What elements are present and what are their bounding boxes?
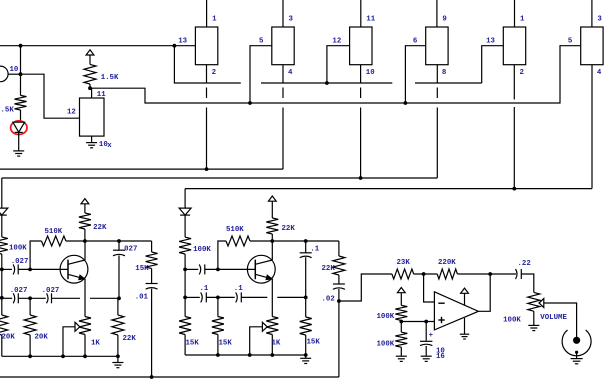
- svg-text:.027: .027: [42, 287, 60, 295]
- svg-text:.01: .01: [135, 293, 149, 301]
- wire: [151, 269, 153, 284]
- node junction: [116, 354, 120, 358]
- wire net IN to pin 13: [0, 45, 195, 47]
- capacitor .22: [516, 269, 522, 279]
- svg-text:15K: 15K: [307, 339, 321, 347]
- svg-text:15K: 15K: [135, 265, 149, 273]
- wire collector: [84, 241, 86, 260]
- svg-text:100K: 100K: [9, 245, 27, 253]
- node junction: [173, 44, 177, 48]
- resistor 22K: [333, 256, 345, 275]
- node junction collector: [83, 239, 87, 243]
- wire to bus line A: [206, 108, 208, 170]
- svg-text:2: 2: [520, 69, 524, 77]
- wire rail drop: [1, 178, 3, 208]
- resistor 20K: [24, 315, 36, 335]
- svg-text:VOLUME: VOLUME: [540, 314, 567, 322]
- inverter U1f (pins 3/5/4): [581, 27, 603, 65]
- svg-text:.027: .027: [10, 287, 28, 295]
- resistor 15K: [212, 317, 224, 335]
- wire: [20, 110, 22, 121]
- wire row2 after crossing: [277, 296, 305, 298]
- node junction: [183, 296, 187, 300]
- svg-text:220K: 220K: [438, 259, 456, 267]
- trimmer block pins 11/12: [80, 98, 105, 136]
- LED indicator: [11, 121, 27, 135]
- node junction: [117, 296, 121, 300]
- power V+ arrow: [86, 50, 94, 65]
- node junction: [83, 354, 87, 358]
- node junction jack sleeve: [575, 351, 578, 354]
- node junction: [359, 176, 363, 180]
- resistor 100K bias lower: [395, 332, 407, 347]
- wire bubble to node: [8, 73, 20, 75]
- svg-text:2: 2: [212, 69, 216, 77]
- wire: [576, 352, 578, 358]
- svg-text:.1: .1: [310, 245, 319, 253]
- wire bottom row: [185, 354, 306, 356]
- wire wiper: [250, 327, 263, 355]
- capacitor .1: [199, 264, 205, 274]
- wire top row: [272, 240, 339, 242]
- svg-text:22K: 22K: [123, 335, 137, 343]
- svg-text:.1: .1: [200, 285, 209, 293]
- node junction: [205, 167, 209, 171]
- wire to supply bus: [90, 46, 581, 103]
- resistor 22K: [112, 315, 124, 335]
- wire stem: [91, 136, 93, 143]
- node junction: [422, 272, 426, 276]
- wire row2: [52, 297, 81, 299]
- svg-text:.027: .027: [11, 258, 29, 266]
- node junction: [304, 296, 308, 300]
- power V+ arrow: [81, 199, 89, 213]
- svg-text:+: +: [429, 332, 434, 340]
- resistor 510K: [226, 236, 250, 246]
- resistor 1.5K: [84, 64, 96, 84]
- wire row2 after crossing: [90, 297, 119, 299]
- wire pin 1 top stem: [514, 0, 516, 27]
- node junction: [337, 299, 341, 303]
- power V+ arrow: [268, 196, 276, 218]
- wire: [118, 255, 120, 298]
- svg-text:1K: 1K: [91, 340, 100, 348]
- node junction: [88, 86, 92, 90]
- wire rail: [184, 269, 186, 297]
- wire rail: [1, 269, 3, 297]
- wire top row: [85, 240, 152, 242]
- capacitor .1: [300, 253, 312, 258]
- wire emitter: [84, 279, 86, 317]
- svg-text:5: 5: [259, 38, 264, 46]
- svg-text:10: 10: [10, 66, 19, 74]
- wire pin12 to row2: [327, 46, 350, 83]
- wire: [305, 297, 307, 317]
- resistor 15K: [179, 317, 191, 335]
- svg-text:4: 4: [597, 69, 602, 77]
- svg-text:22K: 22K: [93, 224, 107, 232]
- inverter U1c (pins 11/12/10): [350, 27, 372, 65]
- wire row2: [241, 296, 267, 298]
- node junction: [0, 268, 4, 272]
- svg-text:11: 11: [97, 91, 106, 99]
- wire: [305, 257, 307, 297]
- power V+ arrow op-amp: [461, 288, 469, 305]
- wire: [414, 273, 438, 275]
- wire: [217, 297, 219, 316]
- wire: [305, 335, 307, 355]
- wire rail: [1, 298, 3, 315]
- wire pin8 drop: [436, 65, 438, 83]
- ground: [13, 151, 24, 156]
- wire pin10 drop: [360, 65, 362, 83]
- svg-text:13: 13: [178, 38, 187, 46]
- node junction: [512, 187, 516, 191]
- svg-text:13: 13: [486, 38, 495, 46]
- wire bus line A: [0, 168, 283, 170]
- wire: [29, 335, 31, 356]
- wire row2: [206, 296, 235, 298]
- wire crossing dash: [436, 88, 438, 99]
- ground: [421, 356, 432, 361]
- wire pin4 drop: [282, 65, 284, 83]
- resistor 15K: [300, 317, 312, 335]
- svg-text:100K: 100K: [503, 317, 521, 325]
- wire crossing dash: [360, 88, 362, 99]
- svg-text:3: 3: [597, 15, 602, 23]
- ground: [396, 356, 407, 361]
- wire bias node: [401, 321, 434, 323]
- diode D2: [179, 208, 191, 215]
- wire bottom row: [2, 355, 118, 357]
- resistor 15K: [146, 252, 158, 269]
- potentiometer 100K VOLUME: [528, 292, 540, 311]
- wire: [29, 298, 31, 315]
- svg-text:15K: 15K: [186, 340, 200, 348]
- svg-text:22K: 22K: [322, 265, 336, 273]
- node junction: [28, 296, 32, 300]
- wire output rail: [0, 376, 339, 378]
- wire to bus line B: [360, 108, 362, 179]
- wire to bus line B: [436, 108, 438, 179]
- node junction: [150, 375, 154, 379]
- wire: [117, 356, 119, 362]
- wire base row: [18, 268, 68, 270]
- wire to bus line A: [282, 108, 284, 170]
- wire pin 3 top stem: [591, 0, 593, 27]
- capacitor .027: [47, 293, 52, 303]
- wire bus line B: [2, 177, 438, 179]
- wire: [1, 254, 3, 269]
- wire: [521, 274, 534, 292]
- node junction: [216, 268, 220, 272]
- wire pin5 to bus: [250, 46, 272, 103]
- node junction bias: [399, 320, 403, 324]
- svg-text:4: 4: [288, 69, 293, 77]
- wire to amp input: [339, 274, 392, 301]
- inverter U1e (pins 1/13/2): [503, 27, 525, 65]
- capacitor .027: [13, 264, 18, 274]
- wire: [20, 74, 22, 95]
- wire pin2 drop: [206, 65, 208, 83]
- transistor Q2: [247, 255, 275, 283]
- wire row2: [2, 297, 12, 299]
- wire 510K branch: [30, 241, 41, 269]
- svg-text:11: 11: [366, 15, 375, 23]
- wire: [66, 240, 85, 242]
- node junction: [216, 296, 220, 300]
- wire: [84, 335, 86, 357]
- svg-text:6: 6: [413, 38, 418, 46]
- node junction: [0, 296, 4, 300]
- svg-text:10: 10: [366, 69, 375, 77]
- resistor 22K: [79, 213, 91, 229]
- op-amp U2: [434, 292, 478, 330]
- svg-text:12: 12: [332, 38, 341, 46]
- capacitor .01: [146, 284, 158, 290]
- pot wiper arrow: [539, 299, 544, 308]
- resistor .5K: [15, 95, 27, 110]
- svg-text:.1: .1: [234, 285, 243, 293]
- wire 510K branch: [218, 241, 226, 269]
- wire emitter: [271, 279, 273, 317]
- wire: [117, 335, 119, 356]
- svg-text:8: 8: [442, 69, 447, 77]
- svg-text:100K: 100K: [193, 246, 211, 254]
- svg-text:1.5K: 1.5K: [101, 74, 119, 82]
- node junction: [61, 354, 65, 358]
- capacitor 10uF 16V electrolytic: [420, 341, 432, 345]
- svg-text:15K: 15K: [219, 340, 233, 348]
- inverter U1d (pins 9/6/8): [426, 27, 448, 65]
- node junction: [325, 81, 329, 85]
- wire: [184, 335, 186, 356]
- svg-text:.22: .22: [518, 260, 531, 268]
- svg-text:.027: .027: [120, 245, 138, 253]
- svg-text:20K: 20K: [2, 334, 16, 342]
- resistor 100K: [0, 237, 8, 254]
- wire vertical: [20, 46, 22, 74]
- wire: [1, 335, 3, 356]
- node junction: [488, 272, 492, 276]
- wire: [89, 84, 91, 88]
- resistor 100K bias upper: [395, 305, 407, 320]
- wire: [217, 335, 219, 356]
- wire: [400, 347, 402, 356]
- svg-text:16: 16: [436, 353, 445, 361]
- capacitor .027: [113, 250, 125, 256]
- node junction: [183, 268, 187, 272]
- wire rail: [184, 297, 186, 316]
- capacitor .02: [333, 284, 345, 289]
- svg-text:100K: 100K: [377, 341, 395, 349]
- transistor Q1: [60, 255, 88, 283]
- node junction: [304, 353, 308, 357]
- wire segment row1: [174, 46, 240, 83]
- potentiometer 1K: [79, 317, 91, 335]
- wire: [250, 240, 272, 242]
- wire segment row3: [415, 82, 482, 84]
- wire: [151, 241, 153, 252]
- node junction bus: [248, 101, 252, 105]
- wire wiper: [63, 327, 75, 357]
- wire: [84, 229, 86, 241]
- wire to pin 12: [21, 74, 80, 118]
- wire stem: [91, 88, 93, 98]
- wire: [400, 320, 402, 321]
- wire base row: [2, 268, 12, 270]
- svg-text:1K: 1K: [272, 340, 281, 348]
- wire pin4 to line C: [591, 65, 593, 189]
- svg-text:1: 1: [520, 15, 525, 23]
- resistor 23K: [392, 269, 414, 279]
- ground: [112, 363, 123, 368]
- wire: [400, 322, 402, 333]
- node junction: [28, 354, 32, 358]
- resistor 220K: [437, 269, 457, 279]
- pot wiper arrow: [262, 322, 267, 331]
- node junction bus: [404, 101, 408, 105]
- wire: [425, 346, 427, 356]
- svg-text:510K: 510K: [226, 226, 244, 234]
- capacitor .1: [201, 292, 207, 302]
- node junction: [19, 44, 23, 48]
- wire collector: [271, 241, 273, 260]
- node junction collector: [270, 239, 274, 243]
- wire wiper to jack: [544, 303, 577, 340]
- inverter U1a (pins 1/13/2): [195, 27, 217, 65]
- svg-text:22K: 22K: [282, 225, 296, 233]
- svg-text:3: 3: [289, 15, 294, 23]
- node junction: [248, 353, 252, 357]
- wire pin 1 top stem: [206, 0, 208, 27]
- wire to bus line C: [513, 107, 515, 189]
- wire: [271, 335, 273, 356]
- capacitor .1: [236, 292, 242, 302]
- svg-text:.02: .02: [322, 296, 335, 304]
- svg-text:100K: 100K: [377, 313, 395, 321]
- wire: [118, 241, 120, 250]
- svg-text:9: 9: [442, 15, 446, 23]
- wire: [425, 322, 427, 341]
- wire: [533, 311, 535, 325]
- svg-text:.5K: .5K: [1, 107, 15, 115]
- wire output: [478, 274, 490, 311]
- node junction: [28, 268, 32, 272]
- wire pin6 to bus: [405, 46, 425, 103]
- svg-text:510K: 510K: [45, 228, 63, 236]
- wire V- pin: [464, 318, 466, 334]
- wire: [305, 241, 307, 253]
- node junction: [19, 72, 23, 76]
- wire pin 9 top stem: [436, 0, 438, 27]
- wire: [271, 234, 273, 241]
- wire base row: [185, 268, 198, 270]
- svg-text:1: 1: [212, 15, 217, 23]
- output jack: [562, 330, 591, 356]
- wire: [1, 215, 3, 237]
- resistor 20K: [0, 315, 8, 335]
- svg-text:12: 12: [67, 109, 76, 117]
- wire bus line C: [185, 188, 592, 190]
- svg-text:5: 5: [568, 38, 573, 46]
- resistor 22K: [266, 218, 278, 234]
- wire base row: [205, 268, 255, 270]
- wire to output rail: [338, 289, 340, 377]
- wire pin13 to row3: [482, 46, 504, 83]
- ground op-amp V-: [460, 334, 469, 339]
- ground: [86, 143, 97, 148]
- ground: [300, 358, 311, 363]
- wire: [338, 241, 340, 256]
- svg-text:x: x: [107, 142, 112, 150]
- wire crossing dash: [282, 88, 284, 99]
- svg-text:23K: 23K: [397, 259, 411, 267]
- power V+ arrow bias: [397, 288, 405, 306]
- wire: [117, 298, 119, 315]
- capacitor .027: [13, 293, 18, 303]
- wire to output rail: [151, 289, 153, 377]
- resistor 100K: [179, 237, 191, 254]
- node junction: [117, 239, 121, 243]
- diode D1: [0, 208, 8, 215]
- resistor 510K: [42, 236, 66, 246]
- wire: [18, 132, 20, 151]
- potentiometer 1K: [266, 317, 278, 335]
- wire: [338, 275, 340, 284]
- wire: [457, 273, 516, 275]
- node junction: [216, 353, 220, 357]
- wire row2: [185, 296, 200, 298]
- gate output bubble: [0, 66, 8, 82]
- wire pin 11 top stem: [360, 0, 362, 27]
- ground: [528, 325, 539, 330]
- wire segment row2: [261, 82, 392, 84]
- wire: [305, 355, 307, 358]
- inverter U1b (pins 3/5/4): [272, 27, 294, 65]
- wire crossing dash: [206, 88, 208, 99]
- wire: [184, 215, 186, 237]
- wire rail drop: [184, 189, 186, 209]
- svg-text:20K: 20K: [35, 334, 49, 342]
- pot wiper arrow: [75, 322, 80, 331]
- node junction: [424, 320, 428, 324]
- wire row2: [18, 297, 46, 299]
- wire pin 3 top stem: [282, 0, 284, 27]
- wire inverting leg: [424, 274, 435, 302]
- node junction: [304, 239, 308, 243]
- ground jack: [571, 359, 583, 364]
- wire: [184, 254, 186, 269]
- node junction: [270, 353, 274, 357]
- wire pin2 drop: [513, 65, 515, 100]
